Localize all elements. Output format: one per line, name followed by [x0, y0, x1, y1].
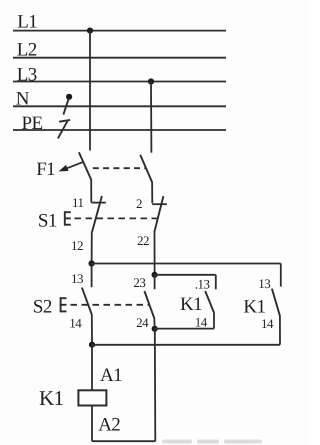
node: junction on L1	[87, 28, 93, 34]
svg-text:A2: A2	[98, 414, 120, 435]
S1 NC contact pole1 blade	[92, 196, 102, 232]
wire: bus from node A to right contact K1	[92, 263, 281, 265]
svg-text:.13: .13	[195, 277, 210, 292]
node: junction on L3	[148, 78, 154, 84]
svg-text:13: 13	[258, 276, 270, 291]
svg-text:K1: K1	[39, 386, 64, 410]
wire: bus from node B to middle contact K1	[155, 274, 216, 276]
auxiliary contact K1 right blade	[272, 289, 280, 316]
wire: slanted tap crossing PE	[58, 121, 68, 138]
contactor coil K1	[78, 390, 106, 405]
S1 actuator link (dashed)	[75, 217, 158, 219]
node B junction dot	[152, 272, 158, 278]
wire: right drop to K1 right contact 13	[280, 264, 282, 287]
breaker F1 pole 2 blade	[140, 155, 152, 182]
wire: S2 pole1 14 down to node C	[91, 314, 93, 344]
svg-text:14: 14	[261, 316, 274, 331]
wire: supply line N	[13, 105, 226, 107]
svg-text:N: N	[16, 89, 30, 110]
wire: bus node C to K1 right contact bottom	[92, 344, 280, 346]
S1 NC contact pole2 seat tick	[152, 203, 167, 205]
wire: slanted tap from N dot	[63, 99, 68, 114]
S2 NO contact pole1 blade	[82, 288, 92, 315]
svg-text:A1: A1	[100, 365, 122, 386]
svg-text:K1: K1	[180, 294, 202, 315]
node C junction dot	[89, 342, 95, 348]
wire: K1 middle 14 down	[213, 312, 215, 328]
svg-text:S2: S2	[33, 296, 52, 317]
svg-text:L1: L1	[17, 12, 37, 33]
svg-text:23: 23	[133, 275, 145, 290]
wire: node C down to coil A1	[91, 345, 93, 391]
wire: drop to K1 middle contact .13	[215, 275, 217, 290]
svg-text:14: 14	[195, 314, 208, 329]
wire: F1 pole2 to S1 contact 2	[151, 182, 153, 204]
breaker F1 pole 1 blade	[79, 152, 91, 179]
S2 actuator link (dashed)	[71, 304, 150, 306]
node A junction dot	[89, 260, 95, 266]
wire: node D down to bottom return	[154, 329, 157, 441]
wire: bus K1 middle 14 back to node D	[155, 328, 214, 330]
svg-text:S1: S1	[38, 210, 57, 231]
S2 pushbutton actuator symbol	[60, 297, 67, 312]
node D junction dot	[152, 326, 158, 332]
S2 NO contact pole2 blade	[144, 291, 154, 318]
S1 pushbutton actuator symbol	[64, 211, 71, 225]
F1 pointer arrowhead	[59, 165, 69, 172]
svg-text:22: 22	[137, 233, 149, 248]
wire: supply line L2	[13, 57, 226, 59]
wire: supply line L3	[13, 81, 226, 83]
wire: S1 pole1 12 down to node A	[91, 232, 93, 264]
F1 pointer arrow line	[62, 162, 84, 170]
wire: supply line L1	[13, 30, 226, 32]
node: tap dot above N line	[66, 94, 72, 100]
wire: supply line PE	[13, 129, 226, 131]
wire: K1 right 14 down to bus	[279, 316, 281, 345]
F1 mechanical link (dashed)	[93, 167, 147, 169]
wire: L1 down to F1 pole 1	[89, 31, 91, 151]
svg-text:14: 14	[69, 315, 82, 330]
wire: S2 pole2 24 to node D	[153, 318, 155, 329]
wire: S1 pole2 22 down to node B	[154, 232, 156, 275]
svg-text:L3: L3	[17, 65, 37, 86]
auxiliary contact K1 middle blade	[205, 291, 214, 313]
svg-text:K1: K1	[243, 297, 265, 318]
svg-text:11: 11	[72, 195, 84, 210]
svg-text:2: 2	[136, 196, 142, 211]
S1 NC contact pole1 seat tick	[91, 202, 106, 204]
PE conductor tick mark	[59, 120, 70, 122]
wire: node A down to S2 pole1 13	[91, 264, 93, 288]
wire: coil A2 down	[91, 406, 93, 442]
svg-text:PE: PE	[22, 113, 43, 134]
wire: L3 down to F1 pole 2	[150, 82, 152, 153]
wire: F1 pole1 to S1 contact 11	[90, 179, 92, 202]
svg-text:L2: L2	[17, 39, 37, 60]
svg-text:F1: F1	[36, 159, 55, 180]
svg-text:13: 13	[71, 271, 83, 286]
cropped caption remnant	[162, 440, 262, 444]
wire: bottom return bus	[92, 440, 155, 442]
wire: node B down to S2 pole2 23	[154, 275, 156, 289]
S1 NC contact pole2 blade	[154, 196, 163, 232]
svg-text:24: 24	[136, 315, 149, 330]
svg-text:12: 12	[71, 238, 83, 253]
